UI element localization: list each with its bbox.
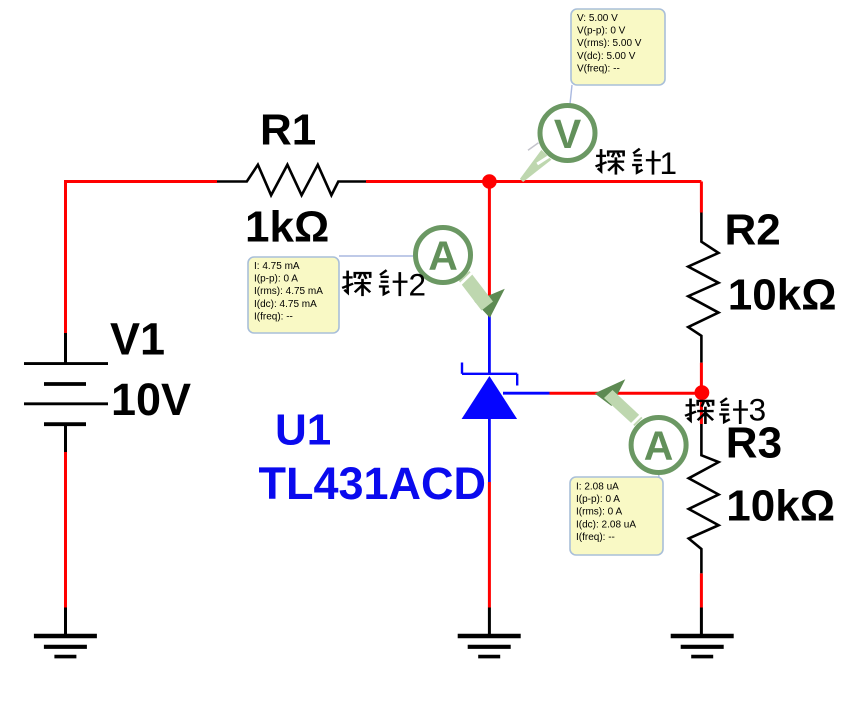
svg-text:R1: R1 — [260, 105, 316, 154]
svg-text:2: 2 — [409, 266, 427, 302]
svg-text:I(freq): --: I(freq): -- — [576, 532, 615, 543]
svg-text:I(freq): --: I(freq): -- — [254, 311, 293, 322]
svg-text:10kΩ: 10kΩ — [728, 270, 837, 319]
svg-text:I(p-p): 0 A: I(p-p): 0 A — [576, 494, 620, 505]
svg-text:I(rms): 4.75 mA: I(rms): 4.75 mA — [254, 286, 323, 297]
svg-text:I: 2.08 uA: I: 2.08 uA — [576, 482, 619, 493]
svg-text:V: V — [554, 111, 582, 157]
svg-text:V(p-p): 0 V: V(p-p): 0 V — [577, 26, 626, 37]
svg-text:V: 5.00 V: V: 5.00 V — [577, 13, 618, 24]
svg-text:V1: V1 — [110, 313, 165, 364]
svg-text:I(dc): 2.08 uA: I(dc): 2.08 uA — [576, 519, 636, 530]
svg-text:10V: 10V — [111, 374, 191, 425]
svg-text:A: A — [644, 423, 674, 469]
svg-text:1kΩ: 1kΩ — [245, 203, 329, 252]
svg-text:I(dc): 4.75 mA: I(dc): 4.75 mA — [254, 299, 317, 310]
svg-text:V(dc): 5.00 V: V(dc): 5.00 V — [577, 51, 636, 62]
svg-text:I: 4.75 mA: I: 4.75 mA — [254, 261, 300, 272]
svg-text:R2: R2 — [725, 205, 781, 254]
svg-text:TL431ACD: TL431ACD — [259, 458, 487, 509]
svg-text:V(freq): --: V(freq): -- — [577, 63, 620, 74]
svg-text:1: 1 — [660, 145, 678, 181]
svg-text:A: A — [428, 233, 458, 279]
svg-text:I(rms): 0 A: I(rms): 0 A — [576, 507, 622, 518]
svg-text:3: 3 — [749, 392, 767, 428]
svg-text:I(p-p): 0 A: I(p-p): 0 A — [254, 274, 298, 285]
svg-text:10kΩ: 10kΩ — [726, 481, 835, 530]
svg-text:V(rms): 5.00 V: V(rms): 5.00 V — [577, 38, 642, 49]
svg-text:U1: U1 — [275, 406, 331, 455]
